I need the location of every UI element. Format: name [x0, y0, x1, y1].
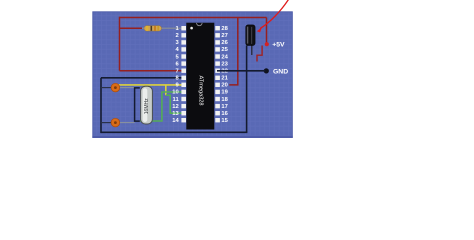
pin pad left pin 2 — [181, 33, 186, 37]
capacitor C2 (22pF) — [111, 118, 120, 127]
svg-text:24: 24 — [221, 54, 228, 60]
wire red resistor feed (pin 1 row) — [120, 27, 143, 29]
pin pad left pin 4 — [181, 47, 186, 51]
annotation red arrow — [260, 0, 289, 29]
wire red capacitor plus hook — [257, 46, 262, 62]
crystal lead bracket — [135, 88, 140, 121]
pin pad left pin 13 — [181, 111, 186, 115]
wire yellow drop bend — [165, 85, 167, 95]
svg-text:+5V: +5V — [272, 42, 285, 49]
resistor R1 body — [144, 26, 162, 31]
pin pad right pin 27 — [215, 33, 220, 37]
capacitor C1 left lead — [101, 87, 112, 89]
wire red branch to pin 20 AVCC — [229, 18, 238, 85]
pin pad left pin 11 — [181, 97, 186, 101]
pin pad left pin 7 — [181, 69, 186, 73]
pin pad right pin 26 — [215, 40, 220, 44]
svg-text:27: 27 — [221, 33, 227, 39]
svg-text:15: 15 — [221, 118, 228, 124]
capacitor C3 electrolytic body — [246, 25, 255, 46]
pin pad left pin 5 — [181, 54, 186, 58]
svg-text:17: 17 — [221, 104, 227, 110]
svg-text:11: 11 — [173, 97, 180, 103]
svg-text:ATmega328: ATmega328 — [198, 75, 204, 105]
svg-text:12: 12 — [172, 104, 178, 110]
pin pad left pin 8 — [181, 76, 186, 80]
pin pad right pin 20 — [215, 83, 220, 87]
svg-text:18: 18 — [221, 97, 228, 103]
pin pad left pin 12 — [181, 104, 186, 108]
capacitor C1 right lead — [119, 87, 135, 89]
wire gnd to pin 8 — [101, 77, 185, 79]
svg-text:GND: GND — [273, 69, 288, 76]
wire gnd vertical (cap leg to bottom rail) — [246, 46, 248, 133]
pin pad left pin 14 — [181, 118, 186, 122]
pin pad left pin 6 — [181, 61, 186, 65]
wire red to pin 7 VCC — [120, 70, 185, 72]
capacitor C3 electrolytic legs — [251, 45, 253, 55]
svg-text:16MHz: 16MHz — [144, 98, 150, 114]
wire red +5V top rail — [120, 17, 267, 19]
svg-text:13: 13 — [172, 111, 179, 117]
wire green jog to pin 13 — [166, 95, 185, 113]
pin pad left pin 3 — [181, 40, 186, 44]
pin pad right pin 15 — [215, 118, 220, 122]
breadboard panel — [92, 11, 292, 137]
wire red left vertical — [119, 17, 121, 71]
pin pad right pin 16 — [215, 111, 220, 115]
pin pad right pin 22 — [215, 69, 220, 73]
node +5V dot — [265, 42, 269, 46]
wire red right vertical to +5V — [266, 18, 268, 44]
pin pad left pin 10 — [181, 90, 186, 94]
svg-text:10: 10 — [172, 90, 178, 96]
svg-text:28: 28 — [221, 26, 228, 32]
svg-text:20: 20 — [221, 83, 227, 89]
svg-text:19: 19 — [221, 90, 228, 96]
capacitor C2 left lead — [101, 122, 112, 124]
wire yellow XTAL1 to pin 9 — [117, 85, 184, 87]
svg-text:16: 16 — [221, 111, 228, 117]
svg-text:14: 14 — [172, 118, 179, 124]
wire gnd bottom rail — [101, 131, 247, 133]
IC notch — [197, 23, 203, 26]
svg-text:21: 21 — [221, 76, 228, 82]
wire green crystal bottom to pin 10 — [140, 92, 185, 121]
IC U1 ATmega328 body — [186, 23, 214, 130]
pin pad right pin 19 — [215, 90, 220, 94]
pin pad right pin 21 — [215, 76, 220, 80]
svg-text:23: 23 — [221, 61, 228, 67]
crystal Y1 16MHz — [141, 86, 153, 124]
svg-text:7: 7 — [175, 69, 178, 75]
pin pad right pin 23 — [215, 61, 220, 65]
node GND dot — [264, 68, 269, 73]
pin pad right pin 24 — [215, 54, 220, 58]
resistor R1 lead — [142, 27, 182, 29]
pin pad left pin 9 — [181, 83, 186, 87]
pin pad right pin 25 — [215, 47, 220, 51]
pin pad left pin 1 — [181, 26, 186, 30]
svg-text:26: 26 — [221, 40, 228, 46]
svg-text:2: 2 — [175, 33, 178, 39]
svg-text:25: 25 — [221, 47, 228, 53]
pin pad right pin 28 — [215, 26, 220, 30]
capacitor C1 (22pF) — [111, 83, 120, 92]
wire gnd left rail — [100, 78, 102, 133]
pin pad right pin 17 — [215, 104, 220, 108]
IC pin 1 marker — [190, 27, 193, 30]
wire gnd pin 22 to GND dot (over label) — [217, 70, 265, 72]
capacitor C2 right lead — [119, 122, 135, 124]
pin pad right pin 18 — [215, 97, 220, 101]
